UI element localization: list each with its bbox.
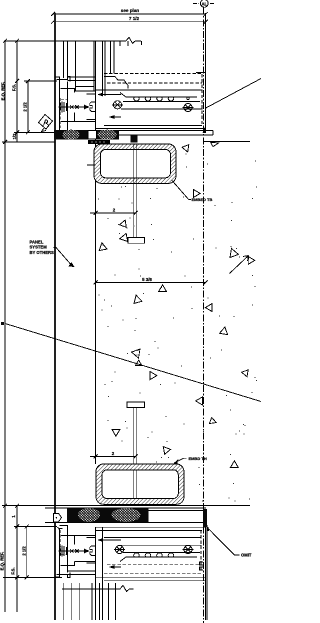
svg-text:EMBED TB: EMBED TB — [192, 197, 213, 202]
dimension see plan — [51, 12, 208, 16]
wall stub lines — [120, 41, 142, 46]
anchor bolt bottom head — [127, 402, 145, 408]
fastener screw at sill — [59, 546, 85, 557]
concrete aggregate triangles — [99, 145, 255, 468]
extension line right — [205, 13, 207, 133]
dim 2 top — [90, 211, 138, 215]
screw boss receiver — [87, 94, 96, 120]
head jamb dashed — [61, 98, 68, 128]
left dim vertical 2.5 bottom — [26, 527, 28, 578]
firesafing strip above tube — [88, 140, 110, 144]
sill dashed perimeter — [104, 530, 201, 573]
head jamb profile — [55, 76, 96, 136]
pentagon symbol — [54, 513, 62, 522]
embed plate top — [119, 131, 213, 135]
svg-text:E.Q. REF.: E.Q. REF. — [1, 82, 6, 101]
glazing verticals below sill — [64, 583, 116, 620]
sill gasket arrow upper — [101, 539, 121, 541]
svg-text:AL: AL — [202, 1, 208, 6]
anchor base plate top — [128, 238, 145, 244]
dim 5 3/8 — [94, 281, 208, 285]
sill jamb profile — [55, 526, 96, 579]
sill anchor bolt right — [183, 545, 194, 553]
long diagonal line — [5, 324, 261, 402]
left horizontals bottom — [3, 527, 62, 578]
glazing gasket arrow upper — [101, 94, 121, 96]
concrete bottom edge — [2, 505, 250, 507]
left horizontals top — [2, 81, 57, 142]
end weld mark — [203, 125, 206, 133]
omit leader — [206, 525, 209, 531]
shelf mark left of tube — [87, 164, 96, 166]
sill bottom line with break — [62, 585, 134, 591]
anchor nut top — [130, 135, 137, 143]
anchor rod bottom — [134, 408, 137, 505]
panel face line — [54, 13, 56, 620]
sill end hooks — [200, 562, 204, 570]
anchor bolt left — [112, 101, 123, 109]
grid centerline — [203, 8, 205, 623]
sill screw boss — [87, 538, 96, 564]
dimension 7 1/2 — [51, 20, 208, 24]
panel note leader — [54, 248, 72, 266]
svg-text:2 1/2: 2 1/2 — [22, 546, 27, 556]
head interior rails — [96, 109, 206, 129]
screw tip arrow — [84, 105, 90, 110]
sill anchor bolt left — [114, 545, 125, 553]
leader embed tb top — [172, 181, 191, 200]
head top step profile — [96, 73, 206, 91]
anchor bolt right — [183, 103, 194, 111]
svg-text:5 3/8: 5 3/8 — [142, 277, 152, 282]
leader to head note — [206, 79, 261, 109]
svg-text:OMIT: OMIT — [241, 553, 252, 558]
dim 2 bottom — [90, 455, 138, 459]
HSS tube bottom — [96, 464, 184, 504]
concrete aggregate dots — [98, 154, 257, 502]
triangle below ledge — [211, 142, 219, 146]
left dim vertical FS bottom — [16, 506, 18, 612]
head dashed perimeter lines — [104, 74, 202, 126]
svg-text:EMBD TH: EMBD TH — [189, 456, 207, 461]
svg-text:BY OTHERS: BY OTHERS — [30, 250, 55, 255]
sill gasket arrow lower — [112, 566, 121, 568]
sill outline top — [96, 527, 206, 530]
svg-text:7 1/2: 7 1/2 — [129, 16, 140, 21]
diagonal start marker — [1, 322, 4, 325]
svg-text:F.S.: F.S. — [11, 567, 16, 574]
glazing gasket arrow lower — [112, 116, 121, 118]
sill interior rails — [96, 538, 206, 581]
pin hole — [187, 97, 189, 99]
svg-text:see plan: see plan — [121, 8, 140, 13]
svg-text:2 1/2: 2 1/2 — [23, 102, 28, 112]
sill serrated bar — [120, 553, 200, 562]
firesafing band bottom — [45, 508, 207, 527]
sill verticals interior — [96, 527, 103, 620]
svg-text:1/2: 1/2 — [12, 133, 17, 139]
wall top line with break — [4, 37, 141, 43]
dim ticks left — [3, 39, 30, 580]
anchor rod top — [134, 144, 137, 238]
svg-text:F.S.: F.S. — [12, 84, 17, 91]
left dim vertical EQ — [4, 41, 6, 612]
leader embed tb bottom — [174, 458, 187, 463]
concrete top edge right — [204, 141, 250, 143]
svg-text:E.Q. REF.: E.Q. REF. — [0, 552, 5, 571]
left dim vertical FS top — [16, 41, 18, 142]
keynote diamond P — [39, 115, 53, 132]
serrated spline bar — [120, 93, 200, 102]
sill jamb dashed — [61, 529, 68, 556]
firesafing band top — [54, 130, 119, 140]
grid bubble A — [193, 0, 215, 7]
HSS tube top — [94, 144, 176, 183]
glazing and panel verticals above head — [64, 41, 115, 464]
left dim vertical 2.5 top — [27, 81, 29, 132]
fastener screw at head — [59, 102, 85, 113]
sill right end cap — [205, 527, 207, 620]
sill screw tip arrow — [84, 549, 90, 554]
head right end cap — [205, 73, 207, 134]
small arrow symbol in concrete — [230, 256, 249, 274]
